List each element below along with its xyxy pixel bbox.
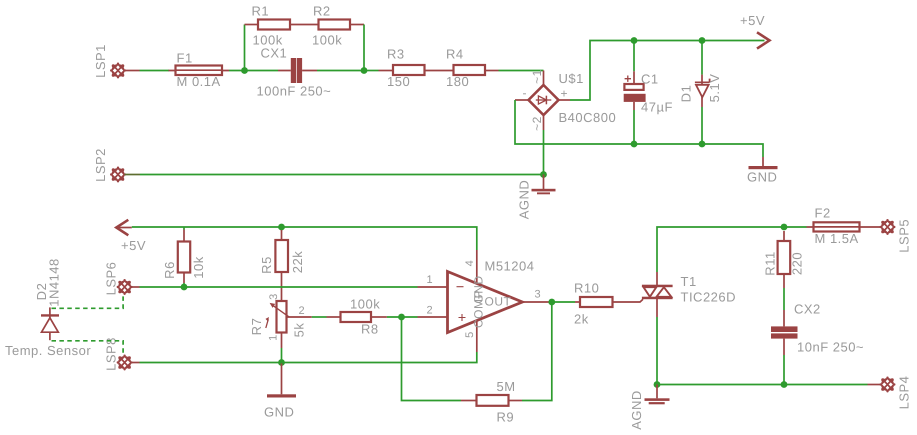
svg-text:100nF 250~: 100nF 250~ xyxy=(257,84,332,99)
pin LSP2 stub xyxy=(125,174,141,176)
svg-text:R11: R11 xyxy=(763,251,778,275)
wire T1 top rail xyxy=(657,227,807,272)
op bridge rectifier U$1 xyxy=(529,85,559,115)
wire feedback down xyxy=(402,317,462,401)
wire bridge bottom down xyxy=(543,130,545,175)
svg-text:R10: R10 xyxy=(574,281,599,296)
junction CX2 bottom xyxy=(781,381,788,388)
svg-text:180: 180 xyxy=(446,74,469,89)
svg-text:R5: R5 xyxy=(259,256,274,274)
pin R7 bottom xyxy=(281,333,283,349)
svg-text:22k: 22k xyxy=(290,251,305,273)
pin arrow tail xyxy=(116,227,132,229)
node LSP1 pad xyxy=(110,63,126,79)
pin op-amp 4 xyxy=(476,250,478,284)
symbol minus xyxy=(457,286,464,288)
wire R4 to bridge xyxy=(499,70,544,72)
pin R5 to R7 xyxy=(281,272,283,301)
capacitor C1 xyxy=(624,71,646,110)
pin U$1 ~2 bottom xyxy=(543,115,545,130)
junction R5 top xyxy=(278,224,285,231)
svg-text:4: 4 xyxy=(464,260,476,267)
triac T1 xyxy=(642,285,673,300)
junction bridge AGND xyxy=(540,171,547,178)
node LSP4 pad xyxy=(880,377,896,393)
junction R7 bottom xyxy=(278,359,285,366)
wire LSP6 to op-amp pin1 xyxy=(140,286,418,288)
svg-text:LSP2: LSP2 xyxy=(93,148,108,182)
wire LSP8 to op-amp pin5 xyxy=(140,352,477,363)
op-amp U2 triangle xyxy=(448,272,523,333)
power arrow +5V xyxy=(757,32,770,48)
junction D1 bottom xyxy=(699,141,706,148)
junction D1 top xyxy=(699,37,706,44)
junction R6 bottom xyxy=(181,284,188,291)
wire LSP2 to bridge xyxy=(140,174,544,176)
svg-text:100k: 100k xyxy=(350,297,380,312)
svg-text:C1: C1 xyxy=(641,71,659,86)
svg-text:100k: 100k xyxy=(312,32,342,47)
junction T1 bottom xyxy=(654,381,661,388)
wire R1 to R2 xyxy=(290,24,319,26)
wire D1 column top xyxy=(701,41,703,75)
svg-text:+5V: +5V xyxy=(121,238,146,253)
svg-text:R6: R6 xyxy=(162,261,177,279)
svg-text:2: 2 xyxy=(299,305,306,317)
svg-text:R2: R2 xyxy=(313,4,331,19)
svg-text:2k: 2k xyxy=(574,312,589,327)
resistor R8 xyxy=(327,312,387,322)
resistor R9 xyxy=(461,395,522,406)
svg-text:LSP1: LSP1 xyxy=(93,44,108,78)
svg-text:OUT: OUT xyxy=(485,295,512,309)
wire op-amp out xyxy=(549,301,576,303)
junction feedback xyxy=(398,314,405,321)
svg-text:M 1.5A: M 1.5A xyxy=(815,231,859,246)
resistor R1 xyxy=(245,20,291,30)
pin T1 MT1 xyxy=(656,299,658,317)
symbol plus xyxy=(459,314,466,321)
svg-text:1: 1 xyxy=(427,274,434,286)
resistor R10 xyxy=(575,297,613,307)
pin LSP4 stub xyxy=(868,384,882,386)
wire CX1 to node B xyxy=(317,70,364,72)
potentiometer R7 xyxy=(266,301,289,333)
wire R7 to LSP8 row xyxy=(281,348,283,363)
resistor R3 xyxy=(379,65,425,75)
wire bridge minus to ground rail xyxy=(515,100,763,157)
svg-text:5: 5 xyxy=(464,331,476,338)
svg-text:TIC226D: TIC226D xyxy=(681,290,737,305)
wire wiper to R8 xyxy=(312,316,327,318)
node LSP8 pad xyxy=(117,355,133,371)
wiper pin R7 xyxy=(287,316,312,318)
svg-text:LSP5: LSP5 xyxy=(896,219,911,253)
junction C1 top xyxy=(631,37,638,44)
pin op-amp 5 xyxy=(476,321,478,352)
wire F1 to node A xyxy=(229,70,278,72)
svg-text:+5V: +5V xyxy=(740,13,765,28)
svg-text:5k: 5k xyxy=(292,323,307,338)
svg-text:R7: R7 xyxy=(249,318,264,336)
svg-text:CX1: CX1 xyxy=(261,46,288,61)
pin LSP1 stub xyxy=(125,70,140,72)
junction node A xyxy=(241,67,248,74)
svg-text:150: 150 xyxy=(387,74,410,89)
wire node B to R3 xyxy=(364,70,379,72)
fuse F2 xyxy=(807,222,882,231)
svg-text:R9: R9 xyxy=(497,410,515,425)
resistor R4 xyxy=(454,65,499,75)
svg-text:GND: GND xyxy=(264,405,294,420)
svg-text:-: - xyxy=(523,86,528,100)
svg-text:F1: F1 xyxy=(177,51,193,66)
resistor R11 xyxy=(778,231,791,288)
svg-text:1: 1 xyxy=(267,334,279,341)
svg-text:R3: R3 xyxy=(387,47,405,62)
svg-text:47µF: 47µF xyxy=(641,100,673,115)
wire C1 column top xyxy=(633,41,635,72)
svg-text:10nF 250~: 10nF 250~ xyxy=(797,340,864,355)
pin LSP8 stub xyxy=(131,362,140,364)
svg-text:+: + xyxy=(561,87,569,101)
svg-text:5.1V: 5.1V xyxy=(707,74,722,103)
node LSP2 pad xyxy=(110,167,126,183)
svg-text:GND: GND xyxy=(747,170,777,185)
svg-text:M 0.1A: M 0.1A xyxy=(177,74,221,89)
capacitor CX1 xyxy=(291,58,302,83)
junction node B xyxy=(361,67,368,74)
svg-text:1N4148: 1N4148 xyxy=(47,258,62,307)
fuse F1 xyxy=(169,66,230,76)
svg-text:LSP8: LSP8 xyxy=(104,337,119,371)
svg-text:D1: D1 xyxy=(679,85,694,103)
pin U$1 ~1 top xyxy=(543,71,545,86)
svg-text:~2: ~2 xyxy=(530,116,544,131)
svg-text:10k: 10k xyxy=(191,256,206,278)
wire C1 bottom xyxy=(633,110,635,144)
resistor R6 xyxy=(178,230,190,284)
svg-text:COMP: COMP xyxy=(472,290,486,328)
wire node A up to R1 xyxy=(244,25,246,71)
resistor R2 xyxy=(319,20,365,30)
junction output xyxy=(548,299,555,306)
wire R9 to output xyxy=(522,302,552,401)
svg-text:3: 3 xyxy=(535,289,542,301)
svg-text:LSP4: LSP4 xyxy=(896,376,911,410)
svg-text:R4: R4 xyxy=(446,47,464,62)
pin op-amp 3 xyxy=(522,301,548,303)
junction C1 bottom xyxy=(631,141,638,148)
svg-text:AGND: AGND xyxy=(629,390,644,430)
svg-text:M51204: M51204 xyxy=(485,259,535,274)
diode D2 xyxy=(41,307,59,340)
wire bridge plus to +5V rail xyxy=(570,41,765,101)
wire T1 to bottom rail xyxy=(656,317,658,385)
svg-text:2: 2 xyxy=(427,305,434,317)
wire CX2 to bottom rail xyxy=(783,355,785,385)
pin op-amp 1 xyxy=(418,286,448,288)
svg-text:T1: T1 xyxy=(681,274,697,289)
wire R6 to LSP6 row xyxy=(183,283,185,287)
pin LSP6 stub xyxy=(131,286,140,288)
wire bottom rail to LSP4 xyxy=(657,384,868,386)
ground AGND bridge xyxy=(532,175,556,195)
svg-text:LSP6: LSP6 xyxy=(104,262,119,296)
wire R10 to gate xyxy=(613,299,644,302)
svg-text:R1: R1 xyxy=(252,4,270,19)
svg-text:B40C800: B40C800 xyxy=(559,110,617,125)
svg-text:220: 220 xyxy=(790,252,805,275)
pin op-amp 2 xyxy=(418,316,448,318)
svg-text:AGND: AGND xyxy=(517,180,532,220)
pin T1 MT2 xyxy=(656,272,658,285)
node LSP5 pad xyxy=(880,219,896,235)
svg-text:F2: F2 xyxy=(815,206,831,221)
ground GND R7 xyxy=(267,363,296,398)
power arrow +5V bottom xyxy=(116,220,128,236)
svg-text:Temp. Sensor: Temp. Sensor xyxy=(5,343,91,358)
wire R2 down to node B xyxy=(363,25,365,71)
junction F2 R11 xyxy=(781,224,788,231)
wire R11 to CX2 xyxy=(783,288,785,310)
capacitor CX1 pins xyxy=(278,70,317,72)
node LSP6 pad xyxy=(117,279,133,295)
svg-text:5M: 5M xyxy=(497,379,516,394)
wire R8 to op-amp pin2 xyxy=(387,316,418,318)
wire +5V rail bottom section xyxy=(132,227,477,250)
svg-text:3: 3 xyxy=(268,293,280,300)
wire D1 bottom xyxy=(701,107,703,144)
wire R3 to R4 xyxy=(425,70,454,72)
capacitor CX2 xyxy=(771,310,798,355)
svg-text:U$1: U$1 xyxy=(559,71,584,86)
ground AGND T1 xyxy=(645,385,670,405)
wire rail to R5 xyxy=(281,227,283,230)
ground GND top xyxy=(749,157,778,169)
svg-text:CX2: CX2 xyxy=(794,302,821,317)
wire dashed D2 top to LSP6 xyxy=(52,296,124,309)
pin U$1 plus right xyxy=(559,99,571,101)
svg-text:~1: ~1 xyxy=(530,69,544,84)
svg-text:R8: R8 xyxy=(361,322,379,337)
resistor R5 xyxy=(275,230,288,272)
pin U$1 minus left xyxy=(515,99,529,101)
wire dashed D2 bottom to LSP8 xyxy=(52,341,124,355)
wire LSP1 to F1 xyxy=(140,70,170,72)
diode D1 zener xyxy=(695,75,710,107)
